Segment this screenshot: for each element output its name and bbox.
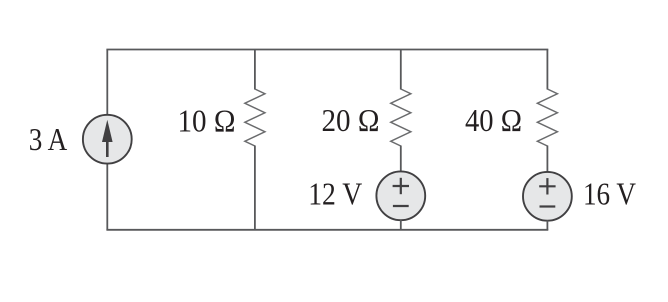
current source I1 arrow [102,120,113,157]
svg-text:40 Ω: 40 Ω [465,103,522,138]
wire: 10-ohm branch lower segment [254,146,256,230]
wire: segment below 12 V source [400,220,402,230]
svg-text:10 Ω: 10 Ω [178,104,236,139]
wire: segment between 40-ohm resistor and 16 V source [546,146,548,173]
voltage source V1 plus sign [393,178,409,194]
voltage source V2 plus sign [539,178,555,194]
resistor R 20 ohm zigzag [391,89,411,146]
svg-text:20 Ω: 20 Ω [322,103,380,138]
wire: right branch upper stub [546,50,548,90]
wire: top bus [107,49,547,51]
voltage source V1 minus sign [393,205,409,207]
resistor R 40 ohm zigzag [537,89,557,146]
wire: left branch upper segment [106,50,108,116]
current source I1 circle (3 A) [83,115,132,164]
wire: bottom bus [107,229,547,231]
voltage source V2 minus sign [540,205,556,207]
svg-text:16 V: 16 V [583,176,636,211]
wire: left branch lower segment [106,164,108,230]
svg-text:12 V: 12 V [308,177,362,212]
wire: 20-ohm branch upper stub [400,50,402,90]
resistor R 10 ohm zigzag [245,89,265,146]
wire: segment below 16 V source [546,220,548,230]
svg-text:3 A: 3 A [29,122,68,157]
voltage source V2 circle (16 V) [523,172,572,221]
wire: segment between 20-ohm resistor and 12 V source [400,146,402,173]
wire: 10-ohm branch upper stub [254,50,256,90]
voltage source V1 circle (12 V) [376,171,425,220]
